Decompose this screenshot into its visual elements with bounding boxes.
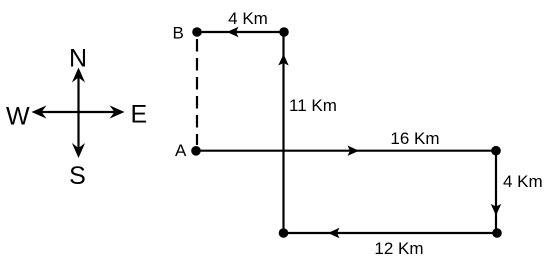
node bottom-left	[279, 228, 289, 238]
node B	[192, 27, 202, 37]
wire A to east (16 Km leg)	[196, 150, 496, 152]
svg-text:12 Km: 12 Km	[374, 239, 423, 258]
node right-top	[491, 146, 501, 156]
wire west (4 Km top leg)	[197, 31, 284, 33]
node A	[191, 146, 201, 156]
wire north (11 Km leg)	[282, 32, 284, 233]
compass north arrowhead	[72, 68, 85, 83]
svg-text:4 Km: 4 Km	[503, 172, 543, 191]
node right-bottom	[492, 228, 502, 238]
svg-text:11 Km: 11 Km	[289, 96, 337, 115]
svg-text:W: W	[6, 103, 30, 131]
compass horizontal line	[36, 111, 120, 113]
wire south (4 Km right leg)	[495, 151, 497, 233]
compass west arrowhead	[32, 105, 47, 118]
wire west (12 Km leg)	[284, 232, 498, 234]
arrowhead west on 4 Km top leg	[227, 27, 239, 37]
compass vertical line	[77, 72, 79, 152]
compass east arrowhead	[110, 105, 125, 118]
arrowhead east on 16 Km leg	[348, 146, 360, 156]
svg-text:4 Km: 4 Km	[228, 9, 268, 28]
arrowhead north on 11 Km leg	[278, 54, 288, 66]
arrowhead south on 4 Km right leg	[491, 204, 501, 216]
arrowhead west on 12 Km leg	[328, 228, 340, 238]
node top junction	[279, 27, 289, 37]
svg-text:16 Km: 16 Km	[390, 129, 439, 148]
svg-text:B: B	[173, 24, 184, 43]
svg-text:E: E	[131, 101, 148, 129]
svg-text:N: N	[69, 45, 87, 73]
svg-text:S: S	[69, 162, 86, 190]
compass south arrowhead	[72, 143, 85, 158]
svg-text:A: A	[175, 141, 187, 160]
dashed wire B to A	[196, 39, 198, 145]
